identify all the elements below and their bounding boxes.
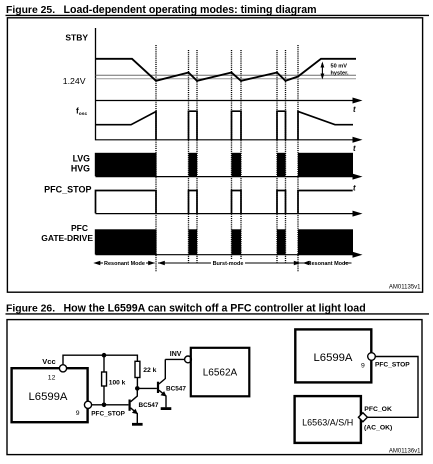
svg-text:AM01135v1: AM01135v1	[389, 285, 421, 291]
svg-text:(AC_OK): (AC_OK)	[364, 424, 392, 431]
svg-text:1.24V: 1.24V	[63, 76, 86, 86]
svg-text:hyster.: hyster.	[331, 70, 349, 76]
svg-text:INV: INV	[170, 351, 182, 358]
svg-text:12: 12	[48, 374, 56, 381]
svg-text:GATE-DRIVE: GATE-DRIVE	[41, 233, 93, 243]
svg-text:How the L6599A can switch off: How the L6599A can switch off a PFC cont…	[64, 303, 366, 315]
svg-text:PFC_STOP: PFC_STOP	[375, 361, 410, 368]
svg-text:L6599A: L6599A	[314, 352, 353, 364]
svg-text:AM01136v1: AM01136v1	[389, 448, 421, 454]
svg-text:Vcc: Vcc	[42, 357, 55, 366]
svg-text:t: t	[353, 105, 356, 114]
svg-text:t: t	[353, 184, 356, 193]
svg-text:t: t	[353, 144, 356, 153]
svg-text:Resonant Mode: Resonant Mode	[308, 261, 349, 267]
svg-text:PFC_STOP: PFC_STOP	[44, 185, 91, 195]
svg-text:50 mV: 50 mV	[331, 64, 348, 70]
svg-text:STBY: STBY	[65, 33, 88, 43]
svg-text:Figure 26.: Figure 26.	[6, 304, 55, 315]
svg-text:Resonant Mode: Resonant Mode	[104, 261, 145, 267]
svg-text:9: 9	[361, 363, 365, 370]
svg-text:9: 9	[76, 410, 80, 417]
svg-text:PFC_STOP: PFC_STOP	[91, 411, 125, 418]
svg-text:LVG: LVG	[73, 153, 91, 163]
svg-text:Burst-mode: Burst-mode	[213, 261, 244, 267]
svg-text:L6562A: L6562A	[203, 368, 238, 379]
svg-text:BC547: BC547	[166, 386, 186, 393]
svg-text:100 k: 100 k	[109, 380, 126, 387]
svg-text:L6563/A/S/H: L6563/A/S/H	[302, 417, 353, 427]
svg-text:HVG: HVG	[71, 163, 90, 173]
svg-text:PFC_OK: PFC_OK	[364, 406, 392, 413]
svg-text:Figure 25.: Figure 25.	[6, 5, 55, 16]
svg-text:PFC: PFC	[71, 223, 88, 233]
svg-text:Load-dependent operating modes: Load-dependent operating modes: timing d…	[64, 4, 317, 16]
svg-text:22 k: 22 k	[143, 367, 156, 374]
svg-text:L6599A: L6599A	[29, 391, 68, 403]
svg-text:BC547: BC547	[139, 402, 159, 409]
